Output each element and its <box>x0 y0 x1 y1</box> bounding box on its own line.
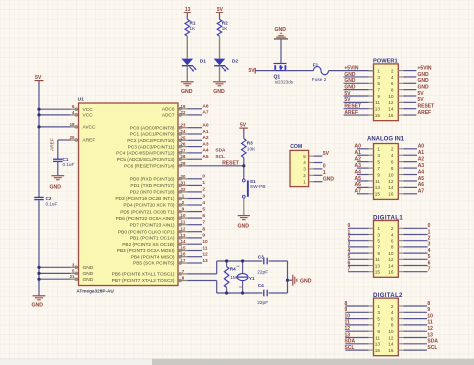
svg-text:RESET: RESET <box>418 104 435 110</box>
svg-text:PC4 (ADC4/SDA/PCINT12): PC4 (ADC4/SDA/PCINT12) <box>116 151 175 157</box>
svg-text:A2: A2 <box>202 135 208 141</box>
svg-text:A0: A0 <box>355 144 362 150</box>
svg-text:9: 9 <box>377 251 380 256</box>
svg-text:PB0 (PCINT0 CLKO ICP1): PB0 (PCINT0 CLKO ICP1) <box>118 229 175 235</box>
svg-text:6: 6 <box>202 213 205 219</box>
svg-text:4: 4 <box>428 248 431 254</box>
svg-text:13: 13 <box>427 332 433 338</box>
svg-text:10: 10 <box>345 313 351 319</box>
svg-text:17: 17 <box>181 258 186 263</box>
svg-text:PB4 (PCINT4 MISO): PB4 (PCINT4 MISO) <box>131 254 175 260</box>
svg-text:10: 10 <box>388 329 394 334</box>
svg-text:GND: GND <box>32 303 44 309</box>
svg-text:16: 16 <box>181 252 186 257</box>
svg-text:D2: D2 <box>232 58 239 64</box>
svg-text:31: 31 <box>181 180 186 185</box>
svg-text:GND: GND <box>238 224 250 230</box>
svg-text:A6: A6 <box>202 104 208 110</box>
svg-text:AVCC: AVCC <box>83 125 97 131</box>
svg-text:AREF: AREF <box>83 138 96 144</box>
svg-text:5: 5 <box>303 154 306 159</box>
svg-text:PC2 (ADC2/PCINT10): PC2 (ADC2/PCINT10) <box>127 138 175 144</box>
svg-text:SCL: SCL <box>427 345 437 351</box>
svg-text:29: 29 <box>181 161 186 166</box>
svg-text:PC0 (ADC0/PCINT8): PC0 (ADC0/PCINT8) <box>130 125 175 131</box>
svg-text:PB2 (PCINT2 SS OC1B): PB2 (PCINT2 SS OC1B) <box>122 242 175 248</box>
svg-text:9: 9 <box>377 172 380 177</box>
svg-text:A2: A2 <box>355 156 362 162</box>
svg-text:C3: C3 <box>258 254 264 259</box>
svg-text:AREF: AREF <box>50 138 56 151</box>
svg-text:9: 9 <box>202 233 205 239</box>
svg-text:A1: A1 <box>202 129 208 135</box>
svg-text:U1: U1 <box>78 96 85 102</box>
svg-text:A1: A1 <box>418 150 425 156</box>
svg-text:GND: GND <box>344 84 356 90</box>
svg-text:C2: C2 <box>46 196 52 201</box>
svg-text:GND: GND <box>275 27 287 33</box>
svg-text:8: 8 <box>391 166 394 171</box>
svg-text:10: 10 <box>181 213 186 218</box>
svg-text:A0: A0 <box>202 123 208 129</box>
svg-text:10: 10 <box>388 251 394 256</box>
svg-text:0: 0 <box>348 223 351 229</box>
svg-text:1M: 1M <box>230 275 237 281</box>
svg-text:11: 11 <box>181 220 186 225</box>
svg-text:8: 8 <box>202 227 205 233</box>
svg-text:11: 11 <box>345 320 351 326</box>
svg-text:1: 1 <box>428 229 431 235</box>
svg-text:0: 0 <box>428 223 431 229</box>
svg-text:ATmega328P-AU: ATmega328P-AU <box>76 288 114 293</box>
svg-text:6: 6 <box>391 316 394 321</box>
svg-text:22pF: 22pF <box>257 269 268 275</box>
svg-text:Y1: Y1 <box>249 276 255 281</box>
svg-text:16: 16 <box>388 113 394 118</box>
svg-text:9: 9 <box>377 94 380 99</box>
svg-text:VCC: VCC <box>83 107 94 113</box>
svg-text:PC5 (ADC5/SCL/PCINT13): PC5 (ADC5/SCL/PCINT13) <box>117 157 175 163</box>
svg-text:5V: 5V <box>418 91 425 97</box>
svg-text:12: 12 <box>202 252 208 258</box>
svg-text:A4: A4 <box>355 169 362 175</box>
svg-text:6: 6 <box>348 260 351 266</box>
svg-text:1: 1 <box>202 180 205 186</box>
svg-text:GND: GND <box>344 72 356 78</box>
svg-text:10: 10 <box>388 172 394 177</box>
svg-text:5: 5 <box>377 239 380 244</box>
svg-text:21: 21 <box>70 274 75 279</box>
svg-text:PD3 (PCINT19 OC2B INT1): PD3 (PCINT19 OC2B INT1) <box>115 196 175 202</box>
svg-text:GND: GND <box>213 89 225 95</box>
svg-text:PD1 (TXD PCINT17): PD1 (TXD PCINT17) <box>130 183 174 189</box>
svg-text:13: 13 <box>375 263 381 268</box>
svg-text:PC1 (ADC1/PCINT9): PC1 (ADC1/PCINT9) <box>130 132 175 138</box>
svg-text:PB6 (PCINT6 XTAL1 TOSC1): PB6 (PCINT6 XTAL1 TOSC1) <box>112 272 175 278</box>
svg-text:2: 2 <box>348 236 351 242</box>
svg-text:D1: D1 <box>200 58 207 64</box>
svg-text:5: 5 <box>377 316 380 321</box>
svg-text:PD0 (RXD PCINT16): PD0 (RXD PCINT16) <box>130 177 175 183</box>
svg-text:R3: R3 <box>247 141 253 146</box>
svg-text:3: 3 <box>303 167 306 172</box>
svg-text:6: 6 <box>391 239 394 244</box>
svg-text:20: 20 <box>70 135 75 140</box>
svg-text:GND: GND <box>418 78 430 84</box>
svg-text:15: 15 <box>375 192 381 197</box>
svg-text:5V: 5V <box>323 151 330 157</box>
svg-text:1K: 1K <box>190 26 197 31</box>
svg-text:SCL: SCL <box>215 154 225 160</box>
svg-text:PB5 (SCK PCINT5): PB5 (SCK PCINT5) <box>133 261 175 267</box>
svg-text:11: 11 <box>375 257 380 262</box>
svg-text:9: 9 <box>377 329 380 334</box>
svg-text:R1: R1 <box>190 21 196 26</box>
svg-text:8: 8 <box>427 301 430 307</box>
svg-text:A1: A1 <box>355 150 362 156</box>
svg-text:12: 12 <box>427 326 433 332</box>
svg-text:5: 5 <box>377 81 380 86</box>
svg-text:15: 15 <box>375 348 381 353</box>
svg-text:18: 18 <box>70 122 75 127</box>
svg-text:7: 7 <box>377 166 380 171</box>
svg-text:12: 12 <box>388 335 394 340</box>
svg-text:7: 7 <box>377 323 380 328</box>
svg-text:3: 3 <box>348 242 351 248</box>
svg-text:4: 4 <box>303 160 306 165</box>
svg-text:11: 11 <box>202 245 207 251</box>
svg-text:A4: A4 <box>418 169 425 175</box>
svg-text:SDA: SDA <box>427 339 438 345</box>
svg-text:A7: A7 <box>418 189 425 195</box>
svg-text:5V: 5V <box>344 97 351 103</box>
svg-text:2: 2 <box>391 68 394 73</box>
svg-text:SDA: SDA <box>345 339 356 345</box>
svg-text:A7: A7 <box>202 110 208 116</box>
svg-text:13: 13 <box>345 332 351 338</box>
svg-text:SW-PB: SW-PB <box>250 184 266 190</box>
svg-text:2: 2 <box>391 304 394 309</box>
svg-text:5: 5 <box>428 254 431 260</box>
svg-text:16: 16 <box>388 348 394 353</box>
svg-text:ADC7: ADC7 <box>162 113 175 119</box>
svg-text:PD5 (PCINT21 OC0B T1): PD5 (PCINT21 OC0B T1) <box>120 209 175 215</box>
svg-text:4: 4 <box>391 153 394 158</box>
svg-text:A3: A3 <box>202 141 208 147</box>
svg-text:GND: GND <box>300 278 312 284</box>
svg-text:A5: A5 <box>355 176 362 182</box>
svg-text:A6: A6 <box>355 182 362 188</box>
svg-text:1: 1 <box>377 147 380 152</box>
svg-text:A7: A7 <box>355 189 362 195</box>
svg-text:1: 1 <box>348 229 351 235</box>
svg-text:GND: GND <box>83 277 94 283</box>
svg-text:5V: 5V <box>418 97 425 103</box>
svg-text:14: 14 <box>181 239 186 244</box>
svg-text:ADC6: ADC6 <box>162 107 175 113</box>
svg-text:GND: GND <box>418 72 430 78</box>
svg-text:4: 4 <box>348 248 351 254</box>
svg-text:AREF: AREF <box>418 110 432 116</box>
svg-text:COM: COM <box>290 144 302 150</box>
svg-text:11: 11 <box>427 320 433 326</box>
svg-text:13: 13 <box>375 107 381 112</box>
svg-text:A2: A2 <box>418 156 425 162</box>
svg-text:GND: GND <box>344 78 356 84</box>
svg-text:PC3 (ADC3/PCINT11): PC3 (ADC3/PCINT11) <box>128 144 175 150</box>
svg-text:A4: A4 <box>202 148 208 154</box>
svg-text:7: 7 <box>202 220 205 226</box>
svg-text:2: 2 <box>303 173 306 178</box>
svg-text:11: 11 <box>375 179 380 184</box>
svg-text:GND: GND <box>418 84 430 90</box>
svg-text:14: 14 <box>388 342 394 347</box>
svg-text:3: 3 <box>377 232 380 237</box>
svg-text:10K: 10K <box>247 146 256 152</box>
svg-text:AREF: AREF <box>344 110 358 116</box>
svg-text:C4: C4 <box>258 283 264 288</box>
svg-text:14: 14 <box>388 185 394 190</box>
svg-text:1: 1 <box>377 304 380 309</box>
svg-text:Fuse 2: Fuse 2 <box>312 77 327 83</box>
svg-text:4: 4 <box>391 75 394 80</box>
svg-text:3: 3 <box>428 242 431 248</box>
svg-text:6: 6 <box>391 159 394 164</box>
svg-text:3: 3 <box>377 75 380 80</box>
svg-text:16: 16 <box>388 192 394 197</box>
svg-text:S1: S1 <box>250 179 256 184</box>
svg-text:11: 11 <box>375 100 380 105</box>
svg-text:30: 30 <box>181 174 186 179</box>
svg-text:6: 6 <box>391 81 394 86</box>
svg-text:GND: GND <box>83 265 94 271</box>
svg-text:PD6 (PCINT22 OC0A AIN0): PD6 (PCINT22 OC0A AIN0) <box>116 216 175 222</box>
svg-text:28: 28 <box>181 154 186 159</box>
svg-text:26: 26 <box>181 142 186 147</box>
svg-text:1: 1 <box>323 170 326 176</box>
svg-text:A0: A0 <box>418 144 425 150</box>
svg-text:12: 12 <box>181 227 186 232</box>
svg-text:7: 7 <box>348 267 351 273</box>
svg-text:3: 3 <box>377 310 380 315</box>
svg-text:1K: 1K <box>222 26 229 31</box>
svg-text:0: 0 <box>202 174 205 180</box>
svg-text:SDA: SDA <box>215 148 226 154</box>
svg-text:9: 9 <box>345 307 348 313</box>
svg-text:8: 8 <box>391 87 394 92</box>
svg-text:22pF: 22pF <box>257 300 268 306</box>
svg-text:16: 16 <box>388 270 394 275</box>
svg-text:PD2 (INT0 PCINT18): PD2 (INT0 PCINT18) <box>130 190 175 196</box>
svg-text:10: 10 <box>388 94 394 99</box>
svg-text:13: 13 <box>375 185 381 190</box>
svg-text:0: 0 <box>323 164 326 170</box>
svg-text:13: 13 <box>375 342 381 347</box>
svg-text:1: 1 <box>377 226 380 231</box>
svg-text:GND: GND <box>181 89 193 95</box>
svg-text:2: 2 <box>391 147 394 152</box>
svg-text:A5: A5 <box>418 176 425 182</box>
svg-text:4: 4 <box>391 232 394 237</box>
svg-text:si2323ds: si2323ds <box>275 80 294 85</box>
svg-text:12: 12 <box>388 257 394 262</box>
svg-text:3: 3 <box>377 153 380 158</box>
svg-text:0.1uF: 0.1uF <box>63 162 75 167</box>
svg-text:ANALOG IN1: ANALOG IN1 <box>367 136 405 142</box>
svg-text:1: 1 <box>303 179 306 184</box>
svg-text:11: 11 <box>375 335 380 340</box>
svg-text:A3: A3 <box>355 163 362 169</box>
svg-text:8: 8 <box>391 245 394 250</box>
svg-text:PC6 (RESET/PCINT14): PC6 (RESET/PCINT14) <box>124 164 175 170</box>
svg-text:GND: GND <box>50 184 62 190</box>
svg-text:12: 12 <box>388 179 394 184</box>
svg-text:9: 9 <box>427 307 430 313</box>
svg-text:GND: GND <box>323 177 335 183</box>
svg-text:15: 15 <box>181 246 186 251</box>
svg-text:A5: A5 <box>202 154 208 160</box>
svg-text:15: 15 <box>375 113 381 118</box>
svg-text:5: 5 <box>202 206 205 212</box>
svg-text:12: 12 <box>345 326 351 332</box>
svg-text:8: 8 <box>345 301 348 307</box>
svg-text:2: 2 <box>202 187 205 193</box>
svg-text:1: 1 <box>377 68 380 73</box>
svg-text:PD4 (PCINT20 XCK T0): PD4 (PCINT20 XCK T0) <box>123 203 175 209</box>
svg-text:A3: A3 <box>418 163 425 169</box>
svg-text:15: 15 <box>375 270 381 275</box>
svg-text:PB3 (PCINT3 OC2A MOSI): PB3 (PCINT3 OC2A MOSI) <box>117 248 175 254</box>
svg-text:4: 4 <box>391 310 394 315</box>
svg-text:R2: R2 <box>222 21 228 26</box>
svg-text:5: 5 <box>348 254 351 260</box>
svg-text:PB7 (PCINT7 XTAL2 TOSC2): PB7 (PCINT7 XTAL2 TOSC2) <box>112 278 175 284</box>
svg-text:+5VIN: +5VIN <box>344 65 358 71</box>
svg-text:5: 5 <box>377 159 380 164</box>
svg-text:RESET: RESET <box>344 104 361 110</box>
svg-text:24: 24 <box>181 129 186 134</box>
svg-text:7: 7 <box>377 87 380 92</box>
svg-text:5V: 5V <box>249 68 256 74</box>
svg-text:13: 13 <box>181 233 186 238</box>
svg-text:19: 19 <box>181 104 186 109</box>
svg-text:7: 7 <box>428 267 431 273</box>
svg-text:7: 7 <box>377 245 380 250</box>
svg-text:8: 8 <box>391 323 394 328</box>
svg-text:14: 14 <box>388 263 394 268</box>
svg-text:+5VIN: +5VIN <box>418 65 432 71</box>
svg-text:12: 12 <box>388 100 394 105</box>
svg-text:4: 4 <box>202 200 205 206</box>
svg-text:2: 2 <box>391 226 394 231</box>
svg-text:10: 10 <box>202 239 208 245</box>
svg-text:13: 13 <box>202 258 208 264</box>
svg-text:VCC: VCC <box>83 113 94 119</box>
svg-text:32: 32 <box>181 187 186 192</box>
svg-text:25: 25 <box>181 135 186 140</box>
svg-text:RESET: RESET <box>222 161 239 167</box>
svg-text:PB1 (PCINT1 OC1A): PB1 (PCINT1 OC1A) <box>130 236 175 242</box>
svg-text:27: 27 <box>181 148 186 153</box>
svg-text:PD7 (PCINT23 AIN1): PD7 (PCINT23 AIN1) <box>130 222 175 228</box>
svg-text:10: 10 <box>427 313 433 319</box>
svg-text:22: 22 <box>181 110 186 115</box>
svg-text:3: 3 <box>202 193 205 199</box>
svg-text:A6: A6 <box>418 182 425 188</box>
svg-text:6: 6 <box>428 260 431 266</box>
svg-text:2: 2 <box>428 236 431 242</box>
svg-text:23: 23 <box>181 123 186 128</box>
svg-text:R4: R4 <box>230 266 236 271</box>
svg-text:5V: 5V <box>344 91 351 97</box>
svg-text:14: 14 <box>388 107 394 112</box>
svg-text:SCL: SCL <box>345 345 355 351</box>
svg-text:GND: GND <box>83 271 94 277</box>
svg-text:0.1uF: 0.1uF <box>46 201 58 206</box>
